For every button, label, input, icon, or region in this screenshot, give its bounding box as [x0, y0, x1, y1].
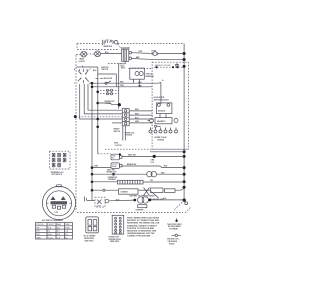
svg-text:INTERLOCK: INTERLOCK — [107, 172, 118, 174]
node: junction at interlock module input — [118, 103, 121, 106]
wire: key switch feed A terminal row — [77, 67, 98, 72]
svg-text:SEE NOTE: SEE NOTE — [104, 78, 113, 80]
svg-text:IGNITION MODULE: IGNITION MODULE — [153, 99, 169, 101]
note text block — [127, 217, 160, 238]
wire: ignition switch to interlock feed — [96, 67, 99, 154]
wire: crossover diagonals — [144, 188, 150, 196]
node: junction on fuel row — [112, 173, 115, 176]
wire: bottom separator dashed — [77, 208, 191, 215]
svg-text:CHARGE: CHARGE — [121, 190, 129, 193]
label: interlock relay — [105, 101, 116, 105]
svg-text:NONE: NONE — [65, 227, 69, 229]
wire: solenoid B to fuse, labelled — [132, 51, 150, 53]
circuit breaker CB1 — [130, 68, 155, 87]
connector pins row lower — [100, 93, 119, 95]
wire: module pin 4 to engine, GRN — [129, 121, 152, 123]
headlight lamp L2 — [87, 51, 101, 57]
engine compartment dashed box — [152, 62, 188, 149]
wire: solenoid output to interlock module — [118, 64, 120, 109]
svg-text:CIRCUIT: CIRCUIT — [48, 224, 54, 226]
wire: chassis dashed border left vertical — [75, 55, 77, 212]
svg-text:POSITION: POSITION — [36, 224, 43, 226]
wire: switch to magneto row, corner into module — [92, 79, 164, 104]
table: key switch positions — [36, 223, 73, 240]
label: fuel clutch — [114, 143, 123, 147]
svg-text:LIGHTS: LIGHTS — [79, 61, 86, 63]
wire: switch to engine row 2 — [92, 85, 152, 88]
wire: module bottom drops — [123, 126, 126, 141]
wire: magneto kill dashed row — [154, 64, 184, 68]
label: ground symbol text under junction — [151, 160, 156, 164]
node: bus bottom junction — [183, 199, 188, 205]
ignition module box in engine — [156, 103, 172, 114]
svg-text:SWITCH: SWITCH — [102, 69, 109, 71]
wire: chassis dashed row under engine — [105, 148, 189, 150]
label: engine ignition text — [155, 64, 171, 67]
svg-text:NOTE: WHEN USING A BOOSTER: NOTE: WHEN USING A BOOSTER — [127, 217, 160, 220]
wire: seat switch to bus, junction — [122, 153, 184, 158]
ammeter shunt box — [92, 189, 150, 194]
svg-text:L: L — [74, 83, 75, 85]
svg-text:OFF: OFF — [55, 212, 58, 214]
ground stud note — [167, 218, 183, 230]
clutch brake plug P2 — [111, 163, 122, 169]
svg-text:RUN: RUN — [36, 234, 39, 236]
svg-text:POSITIVE TO POSITIVE AND: POSITIVE TO POSITIVE AND — [127, 227, 155, 230]
node: junctions on starter wire — [91, 82, 94, 88]
wire: fuse to battery bus — [159, 53, 184, 55]
svg-text:PRESENT: PRESENT — [108, 179, 117, 181]
wire: A terminal drop corner — [98, 74, 117, 87]
starter relay dashed box with cross — [95, 197, 105, 207]
svg-text:BREAKER: BREAKER — [146, 75, 155, 78]
svg-text:RUN: RUN — [36, 231, 39, 233]
wire: alternator row to bus — [150, 151, 184, 153]
wire: long vertical to starter solenoid — [91, 83, 93, 200]
svg-text:KEY SWITCH: KEY SWITCH — [52, 174, 63, 176]
svg-text:TO FRAME: TO FRAME — [169, 228, 179, 231]
node: junctions on starter wire lower — [91, 166, 94, 191]
svg-text:B+L: B+L — [65, 234, 68, 236]
resistor R1 hatched — [92, 180, 184, 184]
label: ignition switch — [101, 67, 109, 71]
svg-text:TERM: TERM — [65, 224, 70, 226]
svg-text:DAMAGED. ALWAYS CONNECT: DAMAGED. ALWAYS CONNECT — [127, 224, 158, 227]
label: key switch caption — [42, 219, 64, 222]
wire: top harness dashed run left — [77, 44, 118, 50]
interlock module connector strip J1 — [122, 109, 129, 126]
wire: lamps to ignition switch, BLK — [100, 52, 121, 54]
wire: brake row from junction to plug — [92, 166, 111, 168]
svg-text:ENGINE: ENGINE — [158, 139, 165, 141]
wire: key switch B terminal drop to module — [88, 84, 122, 110]
connector pins row upper — [100, 89, 119, 91]
svg-text:OFF: OFF — [36, 227, 39, 229]
svg-text:SEAT SW: SEAT SW — [128, 153, 136, 156]
wire: module pin 1 to engine, RED — [129, 109, 152, 111]
svg-text:B+L: B+L — [48, 231, 51, 233]
svg-text:SIDE ONLY: SIDE ONLY — [85, 240, 95, 242]
svg-text:KEY SWITCH TERMINALS: KEY SWITCH TERMINALS — [42, 219, 64, 222]
wire: interlock feed branch to module junction — [98, 103, 120, 105]
battery bus vertical B+ — [183, 44, 185, 201]
svg-text:CLUTCH: CLUTCH — [115, 145, 123, 147]
svg-text:BATTERY, IF CONNECTIONS ARE: BATTERY, IF CONNECTIONS ARE — [127, 219, 160, 222]
svg-text:RELAY: RELAY — [106, 102, 112, 105]
svg-text:SPARK PLUGS: SPARK PLUGS — [155, 136, 168, 139]
label: ground note at bus — [175, 64, 180, 66]
wire: key switch L terminal drop to module — [80, 84, 123, 119]
key switch connector grid — [50, 151, 71, 176]
headlight lamp L1 — [76, 51, 86, 63]
battery B1 plates — [85, 197, 95, 202]
label: spark module — [153, 96, 169, 101]
spark plug terminal row — [149, 128, 178, 142]
svg-text:MODULE: MODULE — [125, 135, 133, 137]
harness connector CN2 (12 pin) — [108, 215, 124, 243]
svg-text:WHT--: WHT-- — [121, 68, 126, 70]
fuel shutoff solenoid coil — [92, 172, 184, 177]
svg-text:ORG: ORG — [120, 85, 125, 87]
svg-text:MODULE: MODULE — [158, 111, 166, 113]
wire: diagonal dashed into solenoid — [118, 44, 131, 50]
svg-text:WIRE SIDE: WIRE SIDE — [110, 241, 120, 243]
svg-text:SWITCH: SWITCH — [114, 131, 121, 133]
harness connector CN1 (4 pin) — [84, 217, 99, 243]
svg-text:YEL: YEL — [150, 180, 153, 182]
node: junction on left border at harness row — [74, 115, 77, 118]
node: bus junction dots — [183, 52, 186, 189]
seat switch plug P1 — [111, 153, 122, 160]
wire: starter to bus bottom — [149, 198, 185, 201]
svg-text:MAGNETO: MAGNETO — [157, 120, 166, 123]
svg-text:OWNERS MANUAL FOR THE: OWNERS MANUAL FOR THE — [127, 232, 155, 235]
svg-text:CORRECT PROCEDURE.: CORRECT PROCEDURE. — [127, 235, 151, 237]
wire: magneto kill dashed stub — [108, 64, 153, 70]
svg-text:BRAKE SW: BRAKE SW — [127, 163, 137, 166]
svg-text:CLUTCH: CLUTCH — [112, 164, 118, 166]
wire: battery positive to fuel solenoid — [109, 195, 156, 202]
magneto coil assembly — [148, 114, 179, 128]
starter motor M1 — [136, 197, 149, 212]
wire: dashed ground diagonal — [174, 200, 185, 210]
label: smart switch — [114, 128, 121, 133]
svg-text:NEGATIVE TO NEGATIVE. SEE: NEGATIVE TO NEGATIVE. SEE — [127, 229, 157, 232]
fuse F2 on battery feed — [151, 50, 160, 55]
wire: key switch G terminal drop to module — [84, 84, 122, 114]
diode pack terminals — [151, 188, 185, 193]
key switch contacts (schematic starburst) — [74, 65, 91, 85]
svg-text:STARTER: STARTER — [136, 209, 145, 212]
label: interlock module — [125, 132, 136, 136]
label: operator presence text cluster — [107, 168, 118, 181]
key switch rear view — [42, 185, 75, 220]
wire: clutch brake plug to bus — [122, 163, 184, 168]
wire: charging row from solenoid to bus — [132, 56, 185, 60]
wire: module pin 4 left stub — [112, 122, 122, 124]
label: arrow to ground — [150, 192, 164, 202]
wire: module pin 2 to engine, WHT — [129, 113, 152, 115]
wire: dashed harness row at left border — [76, 116, 123, 118]
solenoid terminal circle — [105, 199, 109, 203]
wire: seat switch feed corner — [98, 153, 111, 155]
svg-text:AMMETER: AMMETER — [104, 45, 113, 48]
frame ground terminal — [167, 234, 181, 245]
svg-text:PLATE: PLATE — [169, 242, 175, 245]
fuse F1 with ammeter A1 on top harness — [102, 39, 117, 48]
label: momentary contact note — [96, 78, 113, 80]
wire: module pin 3 to engine, BLK — [129, 117, 152, 119]
starter solenoid SOL (hatched box) — [119, 49, 132, 64]
wire: top harness dashed run right to battery bus — [118, 43, 184, 45]
